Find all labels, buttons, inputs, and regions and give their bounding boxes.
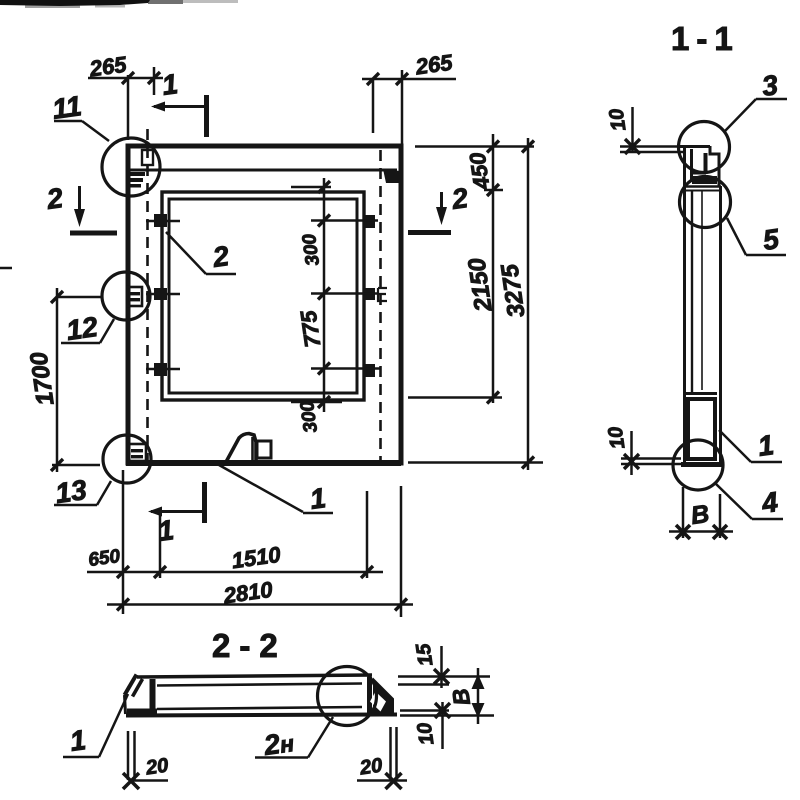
bottom anchor box: [688, 399, 715, 459]
body inner lines: [691, 191, 693, 392]
anchor tab right bottom: [365, 364, 375, 377]
svg-text:1: 1: [756, 429, 776, 462]
svg-text:5: 5: [761, 223, 781, 256]
member left edge: [683, 146, 686, 465]
rib bottom edge: [126, 715, 397, 716]
detail 13 plate bottom corner: [129, 444, 146, 461]
svg-text:300: 300: [299, 232, 324, 267]
svg-text:2-2: 2-2: [212, 627, 287, 664]
dim B section 2-2: [477, 668, 480, 724]
svg-text:2: 2: [449, 182, 470, 215]
right end block: [367, 677, 372, 715]
dim 265 left: [88, 77, 163, 80]
joint lines: [684, 185, 721, 187]
anchor tab left top: [146, 220, 180, 222]
lifting loop detail bottom: [226, 434, 256, 463]
leader label 2: [166, 232, 206, 274]
dims 650 / 1510 / 2810 bottom: [122, 470, 125, 614]
svg-text:2н: 2н: [261, 726, 296, 761]
callout circle 5: [680, 177, 731, 228]
dim 1700 left: [56, 288, 59, 472]
member right edge: [719, 186, 722, 465]
dim 20 right: [389, 727, 392, 780]
svg-text:10: 10: [414, 721, 439, 746]
svg-text:265: 265: [87, 51, 129, 81]
anchor tab right mid: [365, 288, 375, 300]
callout circle 13: [103, 435, 151, 483]
callout circle 2n: [318, 667, 377, 726]
dashed axis left: [146, 129, 149, 462]
svg-text:2: 2: [210, 240, 231, 273]
svg-text:1-1: 1-1: [671, 20, 740, 57]
callout circle 4: [673, 440, 723, 490]
svg-text:10: 10: [605, 425, 630, 450]
dim 265 right: [362, 78, 456, 81]
opening frame inner: [169, 199, 357, 393]
rib third line: [157, 707, 362, 709]
dim 450 / 2150 / 3275 right: [415, 145, 534, 148]
panel outline: [128, 146, 401, 463]
corner plate black wedge top-right: [383, 169, 400, 183]
svg-text:В: В: [447, 687, 475, 707]
svg-text:1700: 1700: [25, 350, 59, 407]
callout circle 11: [102, 138, 160, 196]
svg-text:15: 15: [412, 641, 437, 667]
svg-text:3: 3: [760, 69, 780, 102]
scan tick left margin: [0, 267, 12, 270]
dashed axis right: [379, 150, 382, 462]
top inner lines: [690, 149, 693, 180]
svg-text:300: 300: [297, 399, 322, 434]
anchor tab left mid: [146, 293, 180, 295]
section mark 1 bottom: [202, 482, 207, 523]
svg-text:В: В: [689, 500, 711, 530]
svg-text:1: 1: [68, 724, 88, 757]
bottom box top line: [684, 392, 717, 395]
member top edge: [679, 145, 710, 148]
svg-text:11: 11: [50, 90, 83, 125]
anchor tab right top: [365, 215, 375, 228]
svg-text:4: 4: [759, 486, 780, 519]
svg-text:20: 20: [358, 755, 384, 780]
dim B bottom 1-1: [682, 487, 685, 538]
detail 11 hatch bars: [128, 172, 145, 188]
svg-text:650: 650: [87, 546, 122, 571]
callout circle 12: [102, 272, 150, 320]
dim 20 left: [127, 731, 130, 780]
svg-text:1510: 1510: [230, 542, 283, 574]
svg-text:2: 2: [44, 182, 65, 215]
top rabbet step: [710, 146, 719, 187]
anchor tab left bottom: [146, 368, 180, 370]
svg-text:3275: 3275: [496, 262, 530, 319]
anchor plate mark right of axis: [378, 288, 387, 301]
svg-text:10: 10: [606, 107, 631, 132]
dim chain 300/775/300: [323, 178, 326, 412]
opening frame outer: [162, 192, 364, 400]
rib second line: [157, 684, 362, 686]
callout circle 3: [679, 122, 730, 173]
svg-text:1: 1: [308, 482, 328, 515]
svg-text:1: 1: [160, 68, 180, 101]
top weld bar: [692, 176, 717, 184]
rib top edge: [137, 675, 372, 677]
svg-text:12: 12: [64, 311, 100, 346]
left end block: [125, 675, 137, 696]
detail 12 plate on edge: [127, 287, 142, 306]
svg-text:775: 775: [295, 308, 325, 349]
leader label 1: [219, 465, 303, 512]
member bottom edge: [681, 462, 722, 467]
svg-text:265: 265: [413, 49, 455, 79]
section mark 1 top: [204, 95, 209, 137]
svg-text:20: 20: [144, 755, 170, 780]
scan smudge top edge: [0, 0, 238, 8]
anchor tab top under band: [142, 150, 153, 165]
top rib line: [128, 169, 397, 172]
svg-text:450: 450: [464, 150, 494, 192]
